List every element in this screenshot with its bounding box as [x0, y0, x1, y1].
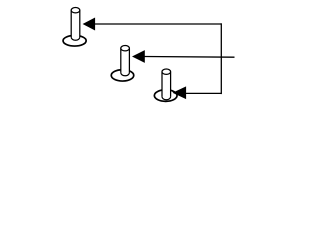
wire from arrow A2 crossing bus to right stub [145, 56, 235, 59]
pin P3 cylinder bottom arc [162, 97, 171, 100]
arrow A3 (points at pin P3) [173, 86, 187, 99]
pin P1 cylinder body [71, 10, 80, 40]
pin P1 cylinder bottom arc [71, 37, 80, 40]
pin P1 base flange [63, 35, 86, 46]
pin P2 base flange [111, 70, 134, 81]
pin P2 cylinder body [121, 48, 130, 76]
pin P2 cylinder bottom arc [121, 73, 130, 76]
pin P1 cylinder top ellipse [71, 8, 80, 13]
arrow A2 (points at pin P2) [132, 50, 145, 63]
wire from arrow A3 to right bus [186, 92, 221, 94]
pin P3 cylinder body [162, 72, 171, 100]
pin P2 (middle cylindrical pin with flange base) [111, 46, 134, 82]
pin P3 base flange [154, 90, 177, 102]
pin P1 (top-left cylindrical pin with flange base) [63, 8, 86, 47]
wire right vertical bus [220, 23, 222, 94]
arrow A1 (points at pin P1) [83, 18, 96, 31]
wire from arrow A1 to right bus [95, 23, 222, 25]
pin P3 (bottom-right cylindrical pin with flange base) [154, 69, 177, 101]
pin P3 cylinder top ellipse [162, 69, 171, 74]
pin P2 cylinder top ellipse [121, 46, 130, 51]
